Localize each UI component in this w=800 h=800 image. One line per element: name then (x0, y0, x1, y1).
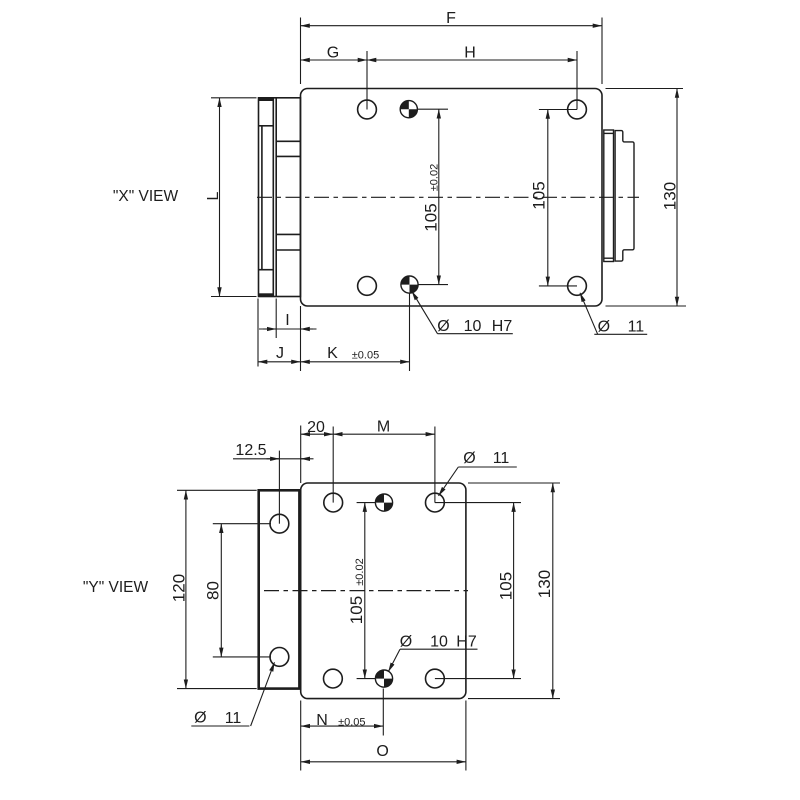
svg-text:11: 11 (225, 710, 242, 727)
svg-text:G: G (327, 45, 339, 62)
dimension 105 +-0.02 Y view (357, 503, 376, 679)
svg-text:±0.02: ±0.02 (429, 164, 441, 191)
leader O11 bottom-left Y view (191, 662, 274, 726)
svg-text:10: 10 (430, 634, 448, 651)
flange hole top Y view (270, 514, 289, 533)
body outline X view (301, 89, 603, 307)
flange bottom box line (259, 269, 274, 271)
dimension F (301, 18, 603, 85)
flange outline Y view (259, 490, 300, 688)
leader O11 X view (580, 293, 647, 335)
dimension K +-0.05 (301, 294, 410, 372)
svg-text:H7: H7 (456, 634, 477, 651)
svg-text:Ø: Ø (463, 450, 475, 467)
svg-text:Ø: Ø (400, 634, 412, 651)
svg-text:20: 20 (307, 419, 325, 436)
body hole top-right Y view (426, 493, 445, 512)
svg-text:11: 11 (628, 319, 645, 336)
svg-text:±0.05: ±0.05 (338, 717, 365, 729)
svg-text:"Y" VIEW: "Y" VIEW (83, 579, 149, 596)
dimension 20 Y view (301, 426, 334, 503)
flange top box line (259, 125, 274, 127)
hole top-right X view (568, 100, 587, 119)
svg-text:105: 105 (422, 203, 441, 231)
dimension 80 Y view (213, 524, 271, 657)
svg-text:I: I (285, 312, 289, 329)
body hole top-left Y view (324, 493, 343, 512)
svg-text:Ø: Ø (598, 319, 610, 336)
dimension M Y view (333, 427, 435, 503)
svg-text:105: 105 (497, 572, 516, 600)
svg-text:10: 10 (464, 318, 482, 335)
leader O10H7 X view (412, 291, 513, 334)
svg-text:M: M (377, 419, 390, 436)
dimension O Y view (301, 701, 466, 771)
dimension 105 right X view (539, 110, 577, 286)
flange hole bottom Y view (270, 648, 289, 667)
svg-text:130: 130 (661, 182, 680, 210)
svg-text:80: 80 (204, 581, 223, 600)
body hole bottom-left Y view (324, 669, 343, 688)
centerline X view (257, 196, 639, 198)
dimension H (367, 51, 577, 110)
svg-text:J: J (276, 345, 284, 362)
hole bottom-left X view (358, 277, 377, 296)
hole bottom-right X view (568, 277, 587, 296)
connector plate X view (604, 130, 614, 262)
dimension L (211, 98, 257, 297)
datum target top Y view (375, 494, 392, 511)
leader O10H7 Y view (388, 649, 477, 672)
flange right column steps (276, 140, 300, 142)
dimension 120 Y view (177, 490, 257, 688)
svg-text:O: O (376, 743, 388, 760)
svg-text:12.5: 12.5 (235, 442, 266, 459)
flange outline X view (259, 98, 301, 297)
dimension J (258, 299, 301, 372)
svg-text:K: K (327, 345, 338, 362)
svg-text:120: 120 (170, 574, 189, 602)
svg-text:F: F (446, 10, 456, 27)
dimension 130 X view (606, 89, 687, 307)
dimension G (301, 51, 368, 110)
dimension 105 +-0.02 X view (418, 109, 448, 284)
svg-text:105: 105 (530, 181, 549, 209)
dimension 130 Y view (468, 483, 560, 699)
flange bottom thick cap (259, 293, 273, 296)
dimension N +-0.05 Y view (301, 689, 384, 771)
dimension I (259, 299, 317, 339)
svg-text:"X" VIEW: "X" VIEW (113, 188, 179, 205)
datum target top X view (400, 101, 417, 118)
flange mid vertical pair (272, 98, 274, 297)
svg-text:Ø: Ø (437, 318, 449, 335)
flange inner left vertical (261, 126, 263, 270)
svg-text:130: 130 (535, 570, 554, 598)
svg-text:Ø: Ø (194, 710, 206, 727)
datum target bottom Y view (375, 670, 392, 687)
datum target bottom X view (401, 276, 418, 293)
connector plug X view (615, 131, 634, 262)
svg-text:N: N (316, 712, 328, 729)
dimension 12.5 Y view (233, 451, 314, 524)
leader O11 top-right Y view (439, 467, 517, 496)
svg-text:±0.02: ±0.02 (354, 558, 366, 585)
body outline Y view (301, 483, 466, 699)
svg-text:L: L (205, 191, 222, 200)
hole top-left X view (358, 100, 377, 119)
svg-text:H7: H7 (492, 318, 513, 335)
svg-text:11: 11 (493, 450, 510, 467)
dimension 105 right Y view (435, 503, 521, 679)
svg-text:H: H (464, 45, 476, 62)
body hole bottom-right Y view (426, 669, 445, 688)
flange top thick cap (259, 98, 273, 101)
svg-text:±0.05: ±0.05 (352, 350, 379, 362)
centerline Y view (264, 590, 468, 592)
svg-text:105: 105 (347, 596, 366, 624)
